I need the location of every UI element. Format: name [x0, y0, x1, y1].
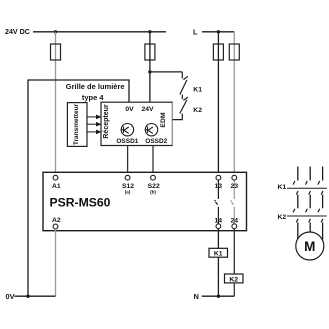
terminal S22: [151, 175, 156, 180]
receiver box right edge (light): [171, 102, 173, 145]
wire phase L2 to motor: [309, 222, 311, 232]
wire K2 coil to N rail: [233, 283, 235, 296]
wire phase L3 upper: [322, 167, 324, 181]
wire phase L1 upper: [297, 167, 299, 181]
fuse F3: [213, 44, 223, 60]
coil K2: [225, 274, 244, 283]
wire EDM chain upper vertical: [181, 72, 183, 79]
terminal 23: [232, 175, 237, 180]
wire phase L2 upper: [309, 167, 311, 181]
wire A2 to 0V rail: [55, 229, 57, 296]
contact 23-24: [230, 200, 233, 205]
svg-text:Récepteur: Récepteur: [103, 104, 110, 139]
transmitter box: [67, 103, 87, 147]
svg-text:EDM: EDM: [160, 112, 167, 127]
svg-text:Grille de lumière: Grille de lumière: [66, 82, 125, 91]
arrow beam 1: [87, 116, 97, 118]
terminal 13: [216, 175, 221, 180]
wire EDM chain lower and into EDM pin: [172, 114, 182, 120]
wire phase L1 middle: [297, 195, 299, 209]
fuse F1: [51, 44, 61, 60]
receiver box: [101, 102, 172, 145]
contact K2 (NC feedback): [180, 97, 188, 113]
node junction on 0V rail: [26, 295, 29, 298]
wire OSSD2 to S22: [152, 146, 154, 176]
svg-text:K1: K1: [193, 86, 202, 93]
wire 0V rail: [15, 295, 56, 297]
contactor K2 actuation line: [287, 215, 327, 217]
coil K1: [209, 248, 228, 257]
contact K1 (NC feedback): [180, 76, 188, 94]
svg-text:type 4: type 4: [82, 93, 105, 102]
terminal A1: [53, 175, 58, 180]
wire phase L3 to motor: [322, 222, 324, 239]
wire from 24V rail through F2 down to receiver 24V pin: [149, 32, 151, 102]
wire phase L2 middle: [309, 195, 311, 209]
svg-text:L: L: [193, 28, 198, 36]
wire 0V supply to light curtain receiver (bent path): [28, 80, 129, 296]
svg-text:K1: K1: [214, 251, 223, 258]
node junction on N rail: [217, 295, 220, 298]
node junction on 24V rail at F1: [54, 30, 57, 33]
node junction on 24V rail at F2: [148, 30, 151, 33]
svg-text:0V: 0V: [125, 106, 134, 113]
wire 24 to K2 coil: [233, 229, 235, 274]
svg-text:0V: 0V: [6, 292, 15, 301]
wire K1 coil to N rail: [217, 257, 219, 296]
svg-text:OSSD2: OSSD2: [145, 138, 167, 145]
contactor K1 pole 1: [293, 181, 298, 195]
terminal S12: [125, 175, 130, 180]
svg-text:(a): (a): [125, 190, 131, 195]
svg-text:PSR-MS60: PSR-MS60: [50, 196, 111, 210]
wire OSSD1 to S12: [127, 146, 129, 176]
svg-text:A1: A1: [52, 183, 61, 190]
svg-text:24V: 24V: [141, 106, 154, 113]
wire EDM chain middle: [181, 95, 183, 100]
svg-text:M: M: [304, 239, 315, 254]
node junction EDM branch: [148, 70, 151, 73]
wire contact to 14: [217, 207, 219, 224]
svg-text:23: 23: [231, 183, 239, 190]
wire L rail: [202, 31, 234, 33]
contactor K1 pole 3: [318, 181, 323, 195]
wire phase L1 to motor: [297, 222, 299, 239]
node junction on L rail: [217, 30, 220, 33]
motor M: [296, 232, 324, 260]
wire from 24V rail to A1: [55, 32, 57, 176]
svg-text:13: 13: [215, 183, 223, 190]
wire 13 to contact: [217, 180, 219, 199]
svg-text:K2: K2: [278, 214, 287, 221]
wire contact to 24: [233, 207, 235, 224]
svg-text:N: N: [194, 292, 199, 301]
svg-text:A2: A2: [52, 217, 61, 224]
contactor K1 pole 2: [306, 181, 311, 195]
svg-text:K2: K2: [229, 276, 238, 283]
contactor K2 pole 3: [318, 209, 323, 223]
arrow beam 3: [87, 131, 97, 133]
svg-text:Transmetteur: Transmetteur: [73, 103, 80, 145]
OSSD2 output symbol: [145, 124, 158, 136]
relay PSR-MS60 box: [43, 172, 247, 230]
svg-text:OSSD1: OSSD1: [116, 138, 138, 145]
svg-text:24V DC: 24V DC: [5, 28, 30, 36]
svg-text:(b): (b): [150, 190, 156, 195]
contact 13-14: [215, 200, 218, 205]
wire from L rail to terminal 23: [233, 32, 235, 176]
wire 23 to contact: [233, 180, 235, 199]
svg-text:K2: K2: [193, 107, 202, 114]
fuse F4: [229, 44, 239, 60]
OSSD1 output symbol: [121, 124, 134, 136]
contactor K2 pole 2: [306, 209, 311, 223]
wire N rail: [202, 295, 235, 297]
contactor K1 actuation line: [287, 187, 327, 189]
wire 14 to K1 coil: [217, 229, 219, 249]
svg-text:K1: K1: [278, 184, 287, 191]
contactor K2 pole 1: [293, 209, 298, 223]
wire from L rail to terminal 13: [217, 32, 219, 176]
fuse F2: [145, 44, 155, 60]
wire EDM branch horizontal: [150, 71, 182, 73]
wire 24V DC rail: [33, 31, 166, 33]
arrow beam 2: [87, 123, 97, 125]
wire phase L3 middle: [322, 195, 324, 209]
